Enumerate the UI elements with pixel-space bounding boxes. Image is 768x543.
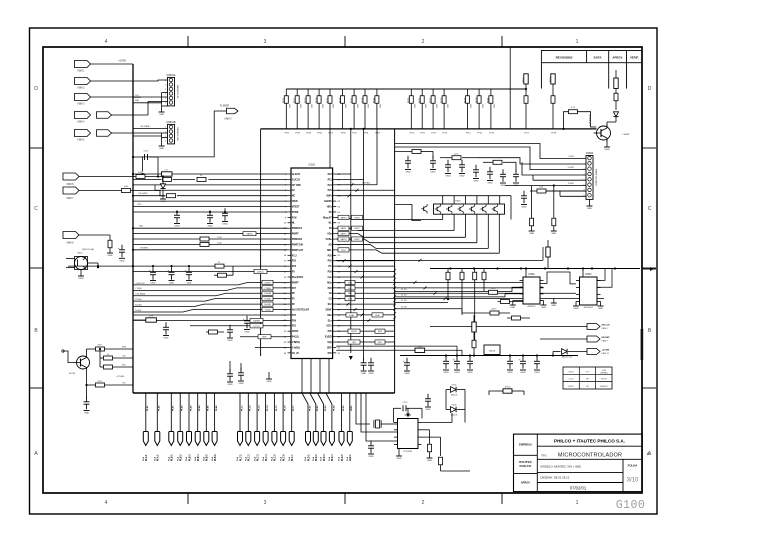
resistor pull 484 xyxy=(482,269,486,292)
resistor R524 xyxy=(464,89,472,135)
svg-text:GND: GND xyxy=(406,172,411,174)
revision triangle marker xyxy=(647,451,650,456)
svg-text:C 2K1: C 2K1 xyxy=(568,379,573,381)
wire bus to IC top xyxy=(329,129,331,168)
rtc IC504 body xyxy=(398,415,419,453)
svg-text:R519: R519 xyxy=(374,97,376,103)
svg-text:KBM 5: KBM 5 xyxy=(602,328,609,330)
terminal PLA 1 xyxy=(142,393,149,461)
svg-text:1N4148: 1N4148 xyxy=(451,394,458,396)
wire port C net xyxy=(79,235,110,240)
svg-text:PLB 5: PLB 5 xyxy=(207,454,209,461)
resistor R553 horizontal xyxy=(462,304,510,315)
border zone labels xyxy=(34,39,652,506)
inline port KBDAT-2 xyxy=(97,130,112,137)
wire net row3 xyxy=(155,185,288,190)
svg-text:TP06: TP06 xyxy=(341,133,347,135)
wire wd net 3 xyxy=(395,298,499,303)
main bus wire vertical left xyxy=(132,64,134,393)
svg-text:PHILCO: PHILCO xyxy=(520,464,532,468)
svg-text:P21: P21 xyxy=(328,179,333,181)
svg-text:FL BEEP: FL BEEP xyxy=(220,105,230,107)
svg-text:APROV: APROV xyxy=(521,481,530,485)
transistor Q501 xyxy=(589,114,611,142)
wire branch c562 xyxy=(110,234,122,236)
svg-text:TP02: TP02 xyxy=(295,133,301,135)
fold mark bar on right border xyxy=(641,329,644,360)
outer border frame xyxy=(30,28,658,514)
net box label b row 8 xyxy=(352,215,363,219)
svg-text:SAP18: SAP18 xyxy=(247,233,253,236)
svg-text:FLA: FLA xyxy=(236,456,239,461)
svg-text:78L05: 78L05 xyxy=(489,351,496,353)
title block drawing title xyxy=(541,453,622,459)
label C-BEEP xyxy=(622,134,630,136)
svg-text:S1 W1: S1 W1 xyxy=(401,289,407,291)
svg-text:PLB 1: PLB 1 xyxy=(172,454,174,461)
svg-text:PLA 1: PLA 1 xyxy=(145,454,148,461)
svg-text:P-KBC: P-KBC xyxy=(568,183,575,185)
svg-text:PLD4: PLD4 xyxy=(332,405,335,411)
title block logo cell 1 xyxy=(519,443,532,447)
svg-text:C.BEEP: C.BEEP xyxy=(622,134,630,136)
svg-text:PLC 4: PLC 4 xyxy=(265,454,268,461)
svg-text:1: 1 xyxy=(165,80,166,82)
resistor R554 horizontal xyxy=(507,307,530,320)
svg-text:GND: GND xyxy=(245,332,250,334)
svg-text:PLC 5: PLC 5 xyxy=(275,454,277,461)
svg-text:HDA: HDA xyxy=(327,205,332,208)
svg-text:PLC 6: PLC 6 xyxy=(283,454,285,461)
wire right row 32 xyxy=(336,341,394,343)
svg-text:GND: GND xyxy=(397,458,402,460)
wire port net 2 xyxy=(540,338,587,340)
svg-text:GND: GND xyxy=(510,307,515,309)
svg-text:CLA-B3NOT: CLA-B3NOT xyxy=(589,114,592,126)
net box labels right mid xyxy=(346,313,383,317)
svg-text:GND: GND xyxy=(159,148,164,150)
svg-text:PLB1: PLB1 xyxy=(173,405,175,411)
svg-text:TIPO:: TIPO: xyxy=(541,455,547,457)
IC501 pin stubs and numbers xyxy=(284,173,341,355)
capacitor C554 xyxy=(507,356,513,374)
diode D507 xyxy=(556,349,587,359)
svg-text:RTS(B): RTS(B) xyxy=(135,299,142,301)
wire wd net 2 xyxy=(395,294,523,297)
svg-text:PLC1: PLC1 xyxy=(241,405,243,411)
svg-text:KBM 8: KBM 8 xyxy=(67,243,75,245)
svg-text:PLA2: PLA2 xyxy=(158,405,161,411)
svg-text:KBM 5: KBM 5 xyxy=(78,139,86,141)
svg-text:RxD(B): RxD(B) xyxy=(264,304,271,306)
wire box feed 1 xyxy=(356,393,370,424)
svg-text:S1(DD: S1(DD xyxy=(325,337,332,339)
svg-text:MC34064: MC34064 xyxy=(584,307,594,309)
svg-text:+: + xyxy=(453,357,455,361)
capacitor C528 xyxy=(227,325,233,342)
vertical crossing wire B xyxy=(363,128,365,360)
wire left row 33 xyxy=(255,346,288,348)
svg-text:C: C xyxy=(648,206,652,212)
jumper JP505 xyxy=(495,387,524,394)
svg-text:AD: AD xyxy=(328,243,332,246)
svg-text:DESENH: DE 01.06.12: DESENH: DE 01.06.12 xyxy=(541,476,570,480)
pull-up rail horizontal xyxy=(286,88,526,90)
capacitor C542 xyxy=(430,151,436,173)
svg-text:FLA: FLA xyxy=(279,456,282,461)
svg-text:FLA: FLA xyxy=(176,456,179,461)
svg-text:FLA: FLA xyxy=(245,456,248,461)
capacitor C556 xyxy=(534,356,540,374)
ground IC503 left xyxy=(573,302,579,311)
wire net to pin19 xyxy=(133,269,288,273)
svg-text:FLA: FLA xyxy=(304,456,307,461)
wire kbd route 2 xyxy=(395,147,586,170)
svg-text:D: D xyxy=(34,86,38,92)
svg-text:10K: 10K xyxy=(368,104,370,108)
connector CN501B xyxy=(165,121,179,144)
wire net to pin28 xyxy=(133,318,288,322)
wire rtc right 1 xyxy=(422,413,453,423)
svg-text:HDP1: HDP1 xyxy=(354,228,359,230)
jumper J-P3 xyxy=(133,309,190,322)
diode D503 xyxy=(613,112,618,122)
svg-text:PLA 2: PLA 2 xyxy=(157,454,160,461)
wire stair net RxD(B) xyxy=(133,302,288,307)
wire array cell 6 to IC xyxy=(336,214,499,253)
svg-text:R514: R514 xyxy=(316,97,318,103)
svg-text:P31: P31 xyxy=(292,326,297,328)
capacitor C575 xyxy=(238,368,244,385)
wire kbd route 7 xyxy=(533,175,586,180)
svg-text:KB.DAT: KB.DAT xyxy=(602,336,611,339)
svg-text:GND: GND xyxy=(79,278,84,280)
svg-text:PLB5: PLB5 xyxy=(208,405,210,411)
regulator IC505 xyxy=(484,345,500,355)
svg-text:GND: GND xyxy=(551,305,556,307)
svg-text:GND: GND xyxy=(151,283,156,285)
port KBM-A xyxy=(63,173,79,186)
input port +5V xyxy=(75,94,91,106)
capacitor C551 xyxy=(443,356,449,374)
svg-text:2: 2 xyxy=(422,39,425,45)
svg-text:R524: R524 xyxy=(464,97,466,103)
svg-text:1N4148: 1N4148 xyxy=(451,414,458,416)
svg-text:GND: GND xyxy=(108,255,113,257)
svg-text:GND: GND xyxy=(541,307,546,309)
resistor R574 horizontal xyxy=(87,381,134,387)
terminal PLC 1 xyxy=(236,393,243,461)
wire rtc right 2 xyxy=(422,430,430,444)
svg-text:6: 6 xyxy=(165,102,166,104)
svg-text:AUX RST/CLKR: AUX RST/CLKR xyxy=(292,308,309,311)
array transistor 3 xyxy=(458,204,464,214)
svg-text:VERIF.: VERIF. xyxy=(630,55,639,59)
wire C514 sides xyxy=(394,408,423,422)
svg-text:PLD 2: PLD 2 xyxy=(316,454,318,461)
svg-text:4N25: 4N25 xyxy=(77,253,83,255)
wire right pin65 net xyxy=(336,189,394,192)
svg-text:3/10: 3/10 xyxy=(627,478,639,484)
svg-text:FLA: FLA xyxy=(338,456,341,461)
svg-text:RxD(B): RxD(B) xyxy=(135,304,142,306)
jumper JP506 on row33 xyxy=(415,347,425,353)
resistor R543 horizontal xyxy=(493,160,502,164)
diode D506 xyxy=(446,385,465,397)
wire net SCL xyxy=(336,286,543,290)
svg-text:KBM 1: KBM 1 xyxy=(78,70,86,72)
svg-text:PARA PCI 4D: PARA PCI 4D xyxy=(176,127,179,141)
wire box feed 2 xyxy=(361,393,398,432)
svg-text:Δ: Δ xyxy=(647,451,650,456)
svg-text:PLA1: PLA1 xyxy=(146,405,149,411)
svg-text:V.A(N1): V.A(N1) xyxy=(292,346,300,349)
net label P-KBC xyxy=(568,183,575,185)
svg-text:PARA PCI 4D: PARA PCI 4D xyxy=(176,85,179,99)
terminal PLD 5 xyxy=(338,393,345,461)
capacitor C549 xyxy=(521,191,527,209)
svg-text:10K: 10K xyxy=(290,104,292,108)
svg-text:+12VMB: +12VMB xyxy=(116,376,124,378)
svg-text:GND: GND xyxy=(161,201,166,203)
wire net row2 xyxy=(133,184,288,186)
capacitor C526 electrolytic xyxy=(185,267,192,284)
svg-text:KB.CLK: KB.CLK xyxy=(602,325,611,327)
wire FL BEEP route xyxy=(143,111,227,172)
svg-text:VDa: VDa xyxy=(327,234,332,236)
port FL BEEP xyxy=(220,105,238,120)
svg-text:GND: GND xyxy=(228,384,233,386)
svg-text:10K: 10K xyxy=(436,104,438,108)
svg-text:2: 2 xyxy=(165,84,166,86)
terminal PLB 2 xyxy=(176,393,183,461)
svg-text:DATA: DATA xyxy=(594,55,603,59)
input port KBDAT xyxy=(75,130,91,142)
capacitor C524 electrolytic xyxy=(149,267,156,284)
svg-text:6: 6 xyxy=(584,184,585,186)
svg-text:FLA: FLA xyxy=(271,456,274,461)
net box label row 8 xyxy=(338,215,349,219)
terminal PLB 6 xyxy=(211,393,218,461)
svg-text:FLA: FLA xyxy=(262,456,265,461)
ground hanger 3 xyxy=(266,372,272,383)
resistor R533 horizontal xyxy=(167,194,176,198)
svg-text:GND: GND xyxy=(164,338,169,340)
svg-text:SAP12: SAP12 xyxy=(341,233,347,236)
svg-text:R522: R522 xyxy=(430,97,432,103)
svg-text:OaPdS: OaPdS xyxy=(324,201,332,203)
revision table xyxy=(541,51,642,63)
wire net NBL xyxy=(336,291,576,295)
svg-text:R520: R520 xyxy=(408,97,410,103)
array transistor 5 xyxy=(480,204,486,214)
title block grid xyxy=(514,434,643,492)
svg-text:SAP10: SAP10 xyxy=(341,216,347,219)
svg-text:JP 2: JP 2 xyxy=(586,371,590,373)
svg-text:ALE/VC: ALE/VC xyxy=(292,173,301,176)
resistor R531 horizontal xyxy=(163,177,172,181)
svg-text:GATEA20: GATEA20 xyxy=(362,181,370,184)
svg-text:MICROCONTROLADOR: MICROCONTROLADOR xyxy=(558,453,622,459)
wire KB DATA to CN501B xyxy=(133,125,168,129)
svg-text:FLA: FLA xyxy=(203,456,206,461)
svg-text:TP13: TP13 xyxy=(442,133,448,135)
terminal PLB 5 xyxy=(203,393,210,461)
svg-text:GND: GND xyxy=(426,409,431,411)
resistor R534 horizontal xyxy=(200,237,222,241)
op-amp IC503 xyxy=(576,273,601,309)
wire CN501B pin4 bundle xyxy=(162,136,168,146)
wire array cell 1 to IC xyxy=(336,214,443,220)
svg-text:KBD/CLK(A): KBD/CLK(A) xyxy=(82,248,94,251)
resistor R518 xyxy=(362,89,370,135)
wire net to pin29 xyxy=(190,324,288,328)
resistor R535 horizontal xyxy=(215,262,224,268)
resistor R562 horizontal xyxy=(122,186,131,193)
svg-text:PLC 1: PLC 1 xyxy=(240,454,242,461)
port KBM-B xyxy=(63,187,79,200)
svg-text:+: + xyxy=(243,317,245,321)
output port KB-CLK xyxy=(587,324,610,331)
resistor R572 horizontal xyxy=(99,348,133,367)
power rail mid xyxy=(400,354,578,356)
wire right row 25 xyxy=(336,303,394,306)
svg-text:GND: GND xyxy=(159,114,164,116)
jumper J15 on pin1 wire xyxy=(162,170,173,177)
capacitor C553 xyxy=(467,356,473,374)
capacitor C562 electrolytic xyxy=(118,235,125,262)
resistor R573 horizontal xyxy=(100,365,133,369)
svg-text:4.7K: 4.7K xyxy=(571,107,576,109)
svg-text:VID: VID xyxy=(122,356,126,358)
wire kbd route 5 xyxy=(476,166,586,186)
svg-text:VID: VID xyxy=(122,383,126,385)
svg-text:GND: GND xyxy=(508,372,513,374)
svg-text:CN501A: CN501A xyxy=(166,74,175,77)
svg-text:1-WLAN: 1-WLAN xyxy=(264,292,272,295)
svg-text:FLA: FLA xyxy=(154,456,157,461)
svg-text:RC0: RC0 xyxy=(348,299,352,301)
capacitor C527 xyxy=(163,322,169,339)
capacitor C523 xyxy=(222,208,228,225)
svg-text:+5VSB: +5VSB xyxy=(118,60,126,63)
capacitor C571 xyxy=(84,385,90,415)
wire port A net xyxy=(79,176,292,178)
capacitor C552 electrolytic xyxy=(453,356,460,374)
resistor R522 xyxy=(430,89,438,135)
capacitor C547 xyxy=(500,169,506,187)
svg-text:P23: P23 xyxy=(292,266,297,268)
svg-text:GND: GND xyxy=(598,308,603,310)
svg-text:POWER: POWER xyxy=(140,247,148,249)
resistor pull 462 xyxy=(460,269,464,316)
svg-text:GND: GND xyxy=(228,340,233,342)
wire rail to diode xyxy=(552,352,556,357)
wire right pin68 net xyxy=(336,173,351,175)
ground IC502 right xyxy=(541,301,547,310)
svg-text:P26: P26 xyxy=(328,190,333,192)
svg-text:10K: 10K xyxy=(322,104,324,108)
svg-text:8: 8 xyxy=(584,195,585,197)
wire right row 30 xyxy=(336,330,394,332)
svg-text:P(ac)/VKO: P(ac)/VKO xyxy=(292,277,303,279)
svg-text:A MONT: A MONT xyxy=(600,385,608,388)
net box label row 11 xyxy=(338,232,349,236)
resistor R545 xyxy=(529,186,535,236)
output port +5V-KB xyxy=(587,349,610,356)
svg-text:IC501: IC501 xyxy=(309,164,316,167)
svg-text:PWRT.JAT: PWRT.JAT xyxy=(292,249,304,252)
svg-text:PLD 4: PLD 4 xyxy=(331,454,334,461)
capacitor C548 xyxy=(513,162,519,187)
wire row33 long xyxy=(336,350,462,355)
svg-text:S1 W3: S1 W3 xyxy=(401,300,407,302)
svg-text:PLD 3: PLD 3 xyxy=(324,454,326,461)
svg-text:PLB 4: PLB 4 xyxy=(197,454,200,461)
wire right pin66 net xyxy=(336,181,377,186)
title block sheet number xyxy=(627,478,639,484)
wire IC502-IC503 link xyxy=(540,272,576,284)
svg-text:P4(11): P4(11) xyxy=(292,336,299,339)
sheet code G100 xyxy=(616,499,645,512)
svg-text:V.B(N1): V.B(N1) xyxy=(292,342,300,344)
terminal PLC 4 xyxy=(262,393,269,461)
svg-text:+5VMOTR: +5VMOTR xyxy=(135,283,145,285)
wire array cell 5 to IC xyxy=(336,214,488,248)
inline port KBCLK-2 xyxy=(97,112,112,119)
wire CN501A pins bundle xyxy=(162,93,168,107)
svg-text:CN502: CN502 xyxy=(586,152,594,155)
array transistor 6 xyxy=(492,204,498,214)
svg-text:FLA: FLA xyxy=(211,456,214,461)
wire R561 out xyxy=(145,172,162,177)
wire opto in bottom xyxy=(66,267,75,269)
resistor R551 horizontal xyxy=(484,288,512,295)
capacitor C530 xyxy=(361,358,367,375)
svg-text:S1a: S1a xyxy=(328,320,333,322)
wire net row7 xyxy=(133,211,288,213)
wire rail drop 510 xyxy=(509,47,511,129)
svg-text:PLB3: PLB3 xyxy=(190,405,192,411)
net box label b row 12 xyxy=(352,237,363,241)
diode D501 xyxy=(160,177,165,197)
wire D501 top xyxy=(162,175,164,183)
array transistor 4 xyxy=(469,204,475,214)
svg-text:TP12: TP12 xyxy=(431,133,437,135)
wire Q502 link xyxy=(395,204,421,220)
title block logo cell 2 xyxy=(519,460,533,468)
bus rippers on vertical bus xyxy=(393,269,396,319)
svg-text:GND: GND xyxy=(468,372,473,374)
resistor R537 horizontal xyxy=(206,330,224,334)
svg-text:NC: NC xyxy=(292,196,296,198)
wires array cell tops xyxy=(443,196,500,204)
wire stair net +5VMOTR xyxy=(133,280,288,285)
terminal PLD 2 xyxy=(310,393,319,461)
svg-text:APROV.: APROV. xyxy=(612,55,623,59)
terminal PLC 5 xyxy=(271,393,278,461)
transistor Q502 xyxy=(421,204,427,214)
capacitor C514 top xyxy=(398,402,419,411)
terminal LED 1 xyxy=(346,393,353,461)
input port KBCLK xyxy=(75,112,91,124)
svg-text:S1 W2: S1 W2 xyxy=(401,295,407,297)
capacitor C561 horizontal xyxy=(133,151,158,161)
svg-text:PLB 6: PLB 6 xyxy=(215,454,217,461)
diode D508 xyxy=(446,405,465,417)
svg-text:GND: GND xyxy=(587,208,592,210)
svg-text:EMPRESA: EMPRESA xyxy=(519,443,532,447)
